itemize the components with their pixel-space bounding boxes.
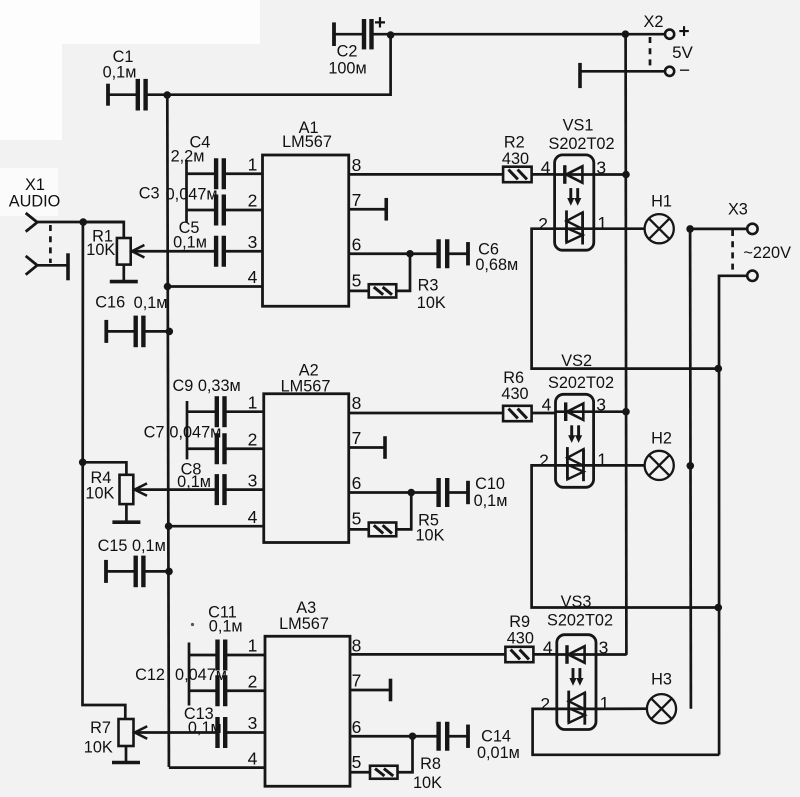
wire wiper line to C8: [135, 488, 216, 491]
capacitor C9: [172, 377, 263, 427]
resistor R6 430: [501, 369, 531, 421]
svg-text:С7: С7: [144, 424, 165, 442]
ground pin7 А2: [349, 436, 385, 459]
capacitor C4: [171, 134, 263, 190]
svg-text:+: +: [678, 22, 689, 43]
potentiometer R4: [83, 462, 147, 522]
ground X2: [578, 63, 582, 88]
wire pin4 А1: [168, 285, 263, 288]
svg-text:5V: 5V: [672, 43, 693, 62]
resistor R8 10K: [350, 736, 442, 792]
svg-text:2: 2: [539, 451, 549, 471]
svg-text:С2: С2: [337, 42, 358, 60]
svg-text:7: 7: [352, 671, 362, 691]
svg-text:S202T02: S202T02: [548, 374, 614, 392]
svg-text:5: 5: [352, 271, 362, 291]
wire X1 bottom jack to ground: [37, 264, 68, 267]
svg-text:Н3: Н3: [651, 671, 672, 689]
svg-text:~220V: ~220V: [743, 244, 791, 262]
op-amp А1 LM567 (IC box): [263, 119, 349, 306]
wire +5V top rail: [391, 33, 666, 36]
svg-text:6: 6: [352, 473, 362, 493]
resistor R9 430: [505, 613, 533, 662]
potentiometer R7: [84, 719, 147, 763]
svg-text:0,1м: 0,1м: [209, 617, 243, 635]
svg-text:5: 5: [352, 509, 362, 529]
svg-text:S202T02: S202T02: [548, 135, 614, 153]
svg-text:7: 7: [352, 190, 362, 210]
node C2 / +5V rail: [387, 31, 395, 39]
svg-text:4: 4: [248, 507, 258, 527]
capacitor C2: [328, 12, 390, 77]
svg-text:С16: С16: [95, 293, 125, 311]
svg-text:3: 3: [248, 232, 258, 252]
svg-text:LM567: LM567: [279, 615, 329, 633]
wire pin6 А1: [349, 252, 410, 255]
svg-text:100м: 100м: [328, 59, 366, 77]
wire H1 to X3: [690, 228, 747, 231]
svg-text:6: 6: [352, 717, 362, 737]
capacitor C13: [184, 705, 265, 748]
svg-text:430: 430: [502, 150, 529, 168]
node C15 on Vcc rail: [165, 568, 173, 576]
node VS2 pin2 on 220V rail: [715, 604, 723, 612]
pin labels VS1: [538, 157, 607, 234]
node VS1 pin3 on 5V rail: [622, 171, 630, 179]
svg-text:VS1: VS1: [563, 117, 594, 135]
svg-text:10K: 10K: [84, 738, 113, 756]
svg-text:0,1м: 0,1м: [474, 492, 508, 510]
wire VS2 pin2 to 220V rail: [532, 465, 719, 607]
node pin4 А2 on Vcc rail: [165, 522, 173, 530]
svg-text:2,2м: 2,2м: [171, 148, 205, 166]
potentiometer R1: [83, 222, 144, 282]
optocoupler VS1 S202T02: [548, 117, 614, 251]
node VS2 pin3 on 5V rail: [622, 408, 630, 416]
capacitor C7: [144, 424, 264, 465]
node pin4 А1 on Vcc rail: [164, 283, 172, 291]
node X1/audio bus: [79, 218, 87, 226]
svg-text:1: 1: [248, 155, 258, 175]
svg-text:X3: X3: [728, 200, 748, 218]
svg-text:LM567: LM567: [281, 377, 331, 395]
svg-text:0,68м: 0,68м: [475, 256, 518, 274]
wire input bus А1: [185, 160, 188, 222]
node H1 output: [686, 225, 694, 233]
lamp H2: [594, 429, 674, 480]
capacitor C15: [98, 537, 169, 587]
svg-text:R7: R7: [90, 719, 111, 737]
svg-text:4: 4: [248, 267, 258, 287]
svg-text:2: 2: [248, 672, 258, 692]
node 5V rail to VS rail: [622, 30, 630, 38]
svg-text:С9 0,33м: С9 0,33м: [172, 377, 240, 395]
svg-text:430: 430: [507, 630, 534, 648]
svg-text:4: 4: [248, 748, 258, 768]
svg-text:X2: X2: [644, 13, 664, 31]
resistor R2 430: [502, 134, 532, 183]
wire input bus А3: [188, 643, 191, 706]
capacitor C11: [189, 603, 265, 670]
svg-text:0,1м: 0,1м: [188, 719, 222, 737]
wire X3 bottom to 220V rail: [719, 276, 747, 755]
svg-text:R3: R3: [418, 276, 439, 294]
node audio bus to R4: [79, 459, 87, 467]
svg-text:−: −: [679, 61, 690, 82]
wire pin8 А2 to R6: [349, 412, 503, 415]
node pin6 А3: [409, 732, 417, 740]
capacitor C8: [177, 460, 264, 505]
capacitor C5: [173, 219, 262, 267]
wire C1 to node: [146, 93, 168, 96]
svg-text:10K: 10K: [86, 241, 115, 259]
pin labels А2: [248, 392, 362, 528]
wire pin4 А2: [169, 525, 264, 528]
svg-text:3: 3: [248, 470, 258, 490]
svg-text:0,1м: 0,1м: [134, 294, 168, 312]
svg-text:430: 430: [501, 385, 528, 403]
svg-text:10K: 10K: [413, 774, 442, 792]
svg-text:+: +: [374, 12, 386, 34]
pin labels VS2: [539, 395, 607, 471]
svg-text:VS3: VS3: [561, 593, 592, 611]
svg-text:8: 8: [352, 155, 362, 175]
connector X1 jack top: [26, 213, 38, 232]
capacitor C16: [95, 293, 169, 347]
pin labels А3: [248, 636, 362, 773]
wire wiper line to C13: [137, 731, 218, 734]
capacitor C3: [139, 184, 263, 225]
svg-text:С15 0,1м: С15 0,1м: [98, 537, 166, 555]
lamp H1: [594, 193, 674, 244]
svg-text:Н1: Н1: [651, 193, 672, 211]
capacitor C1: [103, 48, 146, 111]
svg-text:8: 8: [352, 636, 362, 656]
lamp H3: [596, 671, 676, 724]
svg-text:R8: R8: [420, 755, 441, 773]
svg-text:0,1м: 0,1м: [103, 63, 137, 81]
op-amp А2 LM567 (IC box): [264, 362, 349, 543]
wire X2 minus to ground: [580, 70, 665, 73]
svg-text:С3: С3: [139, 184, 160, 202]
wire Vcc rail (C1 node down to A3 pin4): [167, 95, 169, 767]
wire VS3 pin3 to 5V rail: [596, 653, 627, 656]
svg-text:4: 4: [541, 157, 551, 177]
optocoupler VS2 S202T02: [548, 352, 614, 487]
svg-text:С14: С14: [481, 727, 511, 745]
wire audio bus rail: [83, 222, 126, 719]
wire VS1 pin2 to 220V rail: [532, 229, 719, 369]
wire X1 top to node: [37, 221, 124, 224]
svg-text:7: 7: [352, 428, 362, 448]
ground pin7 А1: [349, 198, 387, 221]
op-amp А3 LM567 (IC box): [265, 599, 350, 786]
node C16 on Vcc rail: [166, 328, 174, 336]
speck: [191, 623, 194, 626]
svg-text:С12: С12: [135, 666, 165, 684]
pin labels VS3: [540, 637, 609, 714]
node C1/rail junction: [163, 91, 171, 99]
optocoupler VS3 S202T02: [547, 593, 613, 730]
svg-text:X1: X1: [25, 176, 45, 194]
wire R6 to optocoupler: [532, 412, 556, 415]
svg-text:8: 8: [352, 393, 362, 413]
label X1 AUDIO: [9, 176, 61, 210]
svg-text:2: 2: [248, 430, 258, 450]
node H2 output: [687, 462, 695, 470]
wire C1 node to C2 node: [167, 35, 390, 95]
svg-text:10K: 10K: [85, 484, 114, 502]
pin labels А1: [248, 155, 362, 291]
svg-text:2: 2: [248, 191, 258, 211]
wire VS2 pin3 to 5V rail: [594, 410, 627, 413]
ground X1 sleeve: [66, 253, 70, 280]
svg-text:10K: 10K: [417, 294, 446, 312]
svg-text:AUDIO: AUDIO: [9, 193, 61, 211]
wire wiper line to C5: [132, 250, 216, 253]
wire VS3 pin2 to 220V rail: [533, 709, 720, 755]
svg-text:2: 2: [540, 694, 550, 714]
svg-text:3: 3: [248, 713, 258, 733]
connector X2: [644, 13, 694, 82]
svg-text:1: 1: [248, 392, 258, 412]
node VS1 pin2 on 220V rail: [715, 365, 723, 373]
capacitor C14: [413, 722, 520, 762]
capacitor C10: [411, 475, 507, 510]
svg-text:5: 5: [352, 752, 362, 772]
capacitor C6: [410, 239, 518, 274]
connector X3: [728, 200, 791, 281]
svg-text:С10: С10: [475, 475, 505, 493]
svg-text:Н2: Н2: [651, 429, 672, 447]
capacitor C12: [135, 666, 265, 706]
wire pin8 А1 to R2: [349, 173, 503, 176]
svg-text:6: 6: [352, 235, 362, 255]
wire pin4 А3: [169, 766, 265, 769]
svg-text:1: 1: [248, 636, 258, 656]
svg-text:0,1м: 0,1м: [173, 233, 207, 251]
svg-text:10K: 10K: [416, 526, 445, 544]
wire input bus А2: [186, 401, 189, 459]
wire lamp output rail: [689, 229, 693, 709]
node pin6 А1: [406, 250, 414, 258]
dashed link X1: [49, 225, 52, 263]
connector X1 jack bottom: [26, 256, 38, 275]
svg-text:4: 4: [542, 395, 552, 415]
svg-text:0,047м: 0,047м: [175, 666, 227, 684]
svg-text:0,047м: 0,047м: [166, 185, 218, 203]
wire R2 to optocoupler: [532, 173, 555, 176]
wire pin6 А3: [350, 735, 413, 738]
svg-text:R9: R9: [509, 613, 530, 631]
wire VS1 pin3 to 5V rail: [594, 173, 627, 176]
node pin6 А2: [407, 489, 415, 497]
svg-text:0,01м: 0,01м: [477, 744, 520, 762]
wire pin6 А2: [349, 491, 412, 494]
wire R9 to optocoupler: [533, 653, 556, 656]
svg-text:0,047м: 0,047м: [169, 424, 221, 442]
svg-text:4: 4: [543, 637, 553, 657]
ground pin7 А3: [350, 679, 391, 702]
resistor R3 10K: [349, 254, 446, 312]
svg-text:VS2: VS2: [561, 352, 592, 370]
svg-text:S202T02: S202T02: [547, 612, 613, 630]
svg-text:2: 2: [538, 214, 548, 234]
wire pin8 А3 to R9: [350, 653, 505, 656]
resistor R5 10K: [349, 493, 445, 545]
svg-text:LM567: LM567: [282, 133, 332, 151]
wire 5V vertical rail to VS pin3s: [624, 34, 628, 655]
